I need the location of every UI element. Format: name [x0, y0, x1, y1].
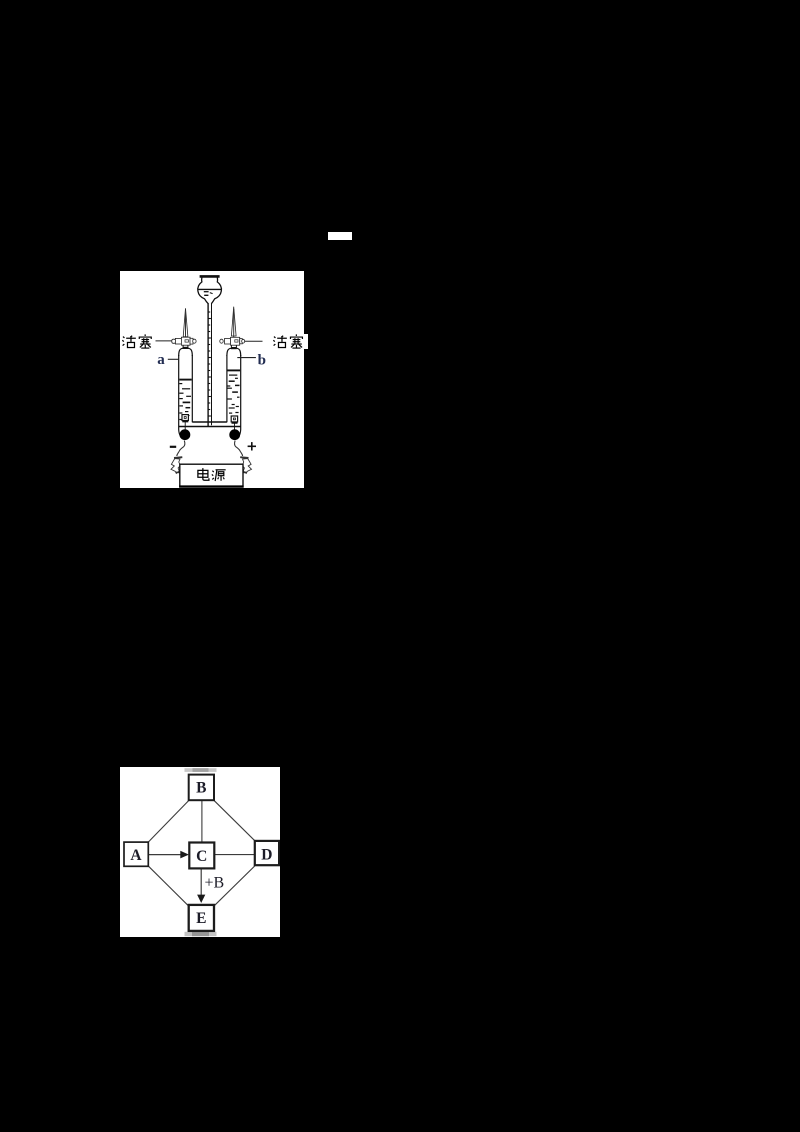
white tab right of panel 1: [304, 334, 308, 349]
left stopcock needle: [172, 308, 196, 345]
svg-text:a: a: [157, 352, 165, 368]
bottom selection handle: [184, 932, 216, 936]
crumpled wire left: [171, 457, 182, 473]
tube a liquid level: [179, 379, 191, 381]
box D: [254, 841, 278, 865]
figure 1: electrolysis apparatus panel: [120, 271, 304, 488]
arrow C to E: [200, 869, 202, 896]
minus terminal sign: [170, 446, 176, 448]
funnel bulb: [198, 277, 208, 303]
label 源 (source) glyph: [212, 470, 226, 481]
label 活 right glyph: [273, 336, 287, 348]
arrow A to C: [148, 854, 180, 856]
pointer line right stopcock label: [244, 340, 262, 342]
power source box: [180, 464, 243, 487]
svg-text:A: A: [130, 847, 142, 864]
tube a body: [179, 348, 193, 436]
tube b electrode bead: [229, 429, 240, 440]
tube b liquid hatching: [227, 375, 239, 413]
right stopcock barrel: [220, 339, 223, 343]
right stopcock to tube neck: [231, 345, 237, 348]
pointer line b: [237, 357, 256, 359]
wire from electrode a: [177, 441, 185, 456]
svg-text:D: D: [261, 847, 272, 864]
label 活 left glyph: [122, 336, 136, 348]
pointer line left stopcock label: [156, 340, 173, 342]
svg-text:B: B: [196, 780, 206, 797]
white dash mark: [328, 232, 352, 240]
diagonal D to E: [214, 866, 255, 906]
tube a electrode holder: [182, 415, 188, 431]
tube b electrode holder: [231, 416, 237, 431]
svg-text:C: C: [196, 848, 207, 865]
left stopcock barrel: [172, 339, 176, 343]
central graduated tube: [207, 303, 209, 426]
diagonal B to A: [148, 800, 189, 842]
tube b body: [227, 348, 241, 436]
connector tube between a and b: [179, 422, 241, 427]
label 塞 right glyph: [290, 334, 302, 348]
top selection handle: [184, 768, 216, 772]
tube a liquid hatching: [179, 384, 191, 420]
crumpled wire right: [240, 457, 251, 473]
box C: [189, 843, 214, 869]
label 电 (power) glyph: [198, 468, 209, 480]
svg-text:b: b: [258, 353, 266, 369]
line C to D: [214, 854, 254, 856]
graduation ticks: [208, 312, 211, 416]
liquid level in bulb: [198, 288, 221, 290]
diagonal A to E: [148, 866, 188, 906]
pointer line a: [168, 358, 179, 360]
box E: [188, 905, 213, 931]
plus terminal sign: [248, 442, 256, 450]
line B to C: [200, 800, 202, 842]
figure 2: reaction scheme panel: [120, 767, 281, 937]
liquid dashes in bulb: [204, 291, 209, 293]
wire from electrode b: [234, 441, 242, 456]
label 塞 left glyph: [139, 334, 151, 348]
svg-text:+B: +B: [204, 875, 224, 892]
diagonal B to D: [213, 800, 254, 841]
box B: [188, 775, 213, 801]
tube a electrode bead: [180, 429, 191, 440]
right stopcock needle: [220, 307, 245, 345]
box A: [124, 842, 148, 866]
svg-text:E: E: [196, 910, 206, 927]
funnel rim: [200, 275, 220, 278]
left stopcock to tube neck: [183, 345, 189, 348]
tube b liquid level: [228, 369, 241, 371]
